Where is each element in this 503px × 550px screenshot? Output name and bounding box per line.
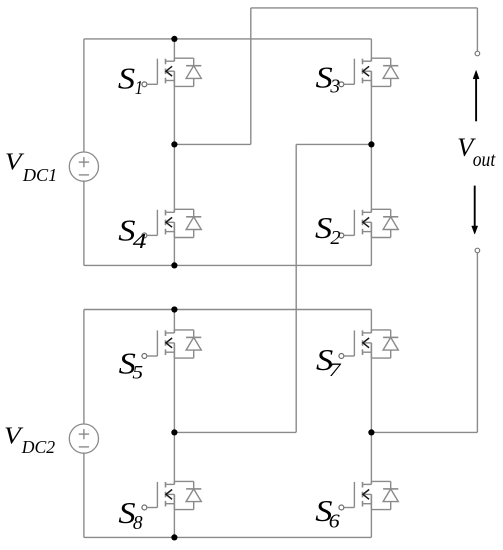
wire: bridge1 left leg bottom xyxy=(173,222,175,265)
wire: bridge2 right leg bottom xyxy=(370,494,372,537)
label S8 xyxy=(118,497,143,535)
transistor S8 xyxy=(142,481,201,510)
transistor S2 xyxy=(339,209,398,238)
svg-text:2: 2 xyxy=(330,227,340,248)
node A1 xyxy=(171,141,177,147)
node bridge1 bottom-left junction xyxy=(171,262,177,268)
wire: bridge2 left leg middle xyxy=(173,343,175,485)
svg-text:out: out xyxy=(473,149,496,171)
wire: bridge2 left leg top xyxy=(173,310,175,333)
wire: bridge1 left rail lower xyxy=(83,181,85,265)
label S2 xyxy=(315,212,341,249)
wire: bridge2 bottom rail xyxy=(84,536,372,538)
label Vout xyxy=(457,132,496,171)
svg-text:S: S xyxy=(118,62,135,96)
wire: node A1 to riser xyxy=(174,143,250,145)
wire: inter-bridge link vertical xyxy=(295,144,297,432)
wire: bridge1 right leg bottom xyxy=(370,222,372,265)
wire: bridge2 left rail lower xyxy=(83,453,85,537)
arrow up (Vout polarity) xyxy=(473,70,479,121)
DC source VDC1 xyxy=(69,152,98,181)
label S5 xyxy=(119,347,143,383)
node bridge2 top-left junction xyxy=(171,306,177,312)
terminal Vout- xyxy=(475,248,480,253)
wire: bridge1 left leg middle xyxy=(173,71,175,212)
wire: top run to Vout+ xyxy=(251,7,478,9)
wire: node B1 to link xyxy=(296,143,371,145)
svg-text:5: 5 xyxy=(132,362,143,383)
label S1 xyxy=(118,62,143,98)
wire: bridge2 top rail xyxy=(84,309,372,311)
DC source VDC2 xyxy=(69,424,98,453)
node B1 xyxy=(368,141,374,147)
label S3 xyxy=(315,61,340,97)
svg-text:DC2: DC2 xyxy=(21,437,55,457)
transistor S5 xyxy=(142,330,201,359)
svg-text:6: 6 xyxy=(329,511,341,532)
transistor S6 xyxy=(339,481,398,510)
svg-text:4: 4 xyxy=(133,230,147,253)
transistor S7 xyxy=(339,330,398,359)
node B2 xyxy=(368,429,374,435)
wire: Vout- terminal drop xyxy=(476,253,478,433)
svg-text:8: 8 xyxy=(133,513,143,534)
wire: bridge2 left leg bottom xyxy=(173,494,175,537)
label S6 xyxy=(315,495,340,532)
svg-text:3: 3 xyxy=(329,77,340,98)
wire: node B2 to Vout- corner xyxy=(371,431,477,433)
wire: bridge1 top rail xyxy=(84,38,372,40)
wire: bridge1 left leg top xyxy=(173,39,175,61)
wire: bridge2 left rail upper xyxy=(83,310,85,425)
svg-text:7: 7 xyxy=(329,359,342,381)
transistor S3 xyxy=(339,58,398,87)
label VDC1 xyxy=(5,148,57,185)
node bridge2 bottom-left junction xyxy=(171,534,177,540)
wire: bridge1 right leg middle xyxy=(370,71,372,212)
wire: bridge2 right leg middle xyxy=(370,343,372,485)
svg-text:1: 1 xyxy=(135,77,143,99)
label S4 xyxy=(118,214,146,253)
node bridge1 top-left junction xyxy=(171,36,177,42)
terminal Vout+ xyxy=(475,51,480,56)
transistor S1 xyxy=(142,58,201,87)
label S7 xyxy=(316,344,342,381)
wire: bridge2 right leg top xyxy=(370,310,372,333)
wire: bridge1 left rail upper xyxy=(83,39,85,152)
wire: riser to top xyxy=(250,8,252,145)
wire: bridge1 bottom rail xyxy=(84,264,372,266)
label VDC2 xyxy=(4,422,55,457)
svg-text:DC1: DC1 xyxy=(22,165,57,185)
wire: link to node A2 xyxy=(174,431,296,433)
node A2 xyxy=(171,429,177,435)
transistor S4 xyxy=(142,209,201,238)
arrow down (Vout polarity) xyxy=(472,186,478,235)
wire: drop to Vout+ terminal xyxy=(476,8,478,51)
wire: bridge1 right leg top xyxy=(370,39,372,61)
